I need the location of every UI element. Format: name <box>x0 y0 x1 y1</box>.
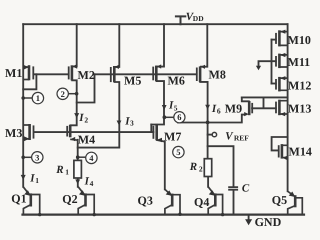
VREF terminal <box>212 132 216 136</box>
svg-text:M3: M3 <box>5 126 22 140</box>
transistor Q3 <box>165 189 180 214</box>
wire M8 drop <box>200 24 207 159</box>
transistor M10 <box>276 30 288 46</box>
svg-text:3: 3 <box>130 119 134 128</box>
transistor M6 <box>153 66 156 82</box>
node 5 <box>173 146 184 157</box>
transistor Q2 <box>78 187 94 215</box>
wire M14 gate tie <box>272 137 288 150</box>
svg-text:M8: M8 <box>209 68 226 82</box>
svg-text:M6: M6 <box>168 74 185 88</box>
svg-text:1: 1 <box>65 168 69 177</box>
svg-text:6: 6 <box>177 112 181 122</box>
ground rail <box>23 214 305 216</box>
wire M11 gate to ground arrow <box>259 61 276 66</box>
svg-text:Q2: Q2 <box>62 192 77 206</box>
wire M7 gate-drain tie <box>150 125 152 133</box>
wire gate bus M3-M4-M7 <box>35 131 153 133</box>
transistor Q5 <box>288 191 303 214</box>
wire R1 top <box>77 140 79 161</box>
transistor M8 <box>197 66 200 82</box>
wire C branch <box>208 146 234 214</box>
svg-text:M9: M9 <box>225 102 242 116</box>
svg-text:4: 4 <box>90 179 94 188</box>
svg-text:2: 2 <box>84 115 88 124</box>
svg-text:GND: GND <box>255 215 282 229</box>
current arrow I6 <box>205 105 210 110</box>
wire M2 drain drop <box>70 24 76 125</box>
svg-text:5: 5 <box>176 147 180 157</box>
junction dot Q3 base <box>178 213 181 216</box>
wire M9 drain to top bus <box>242 97 249 101</box>
svg-text:DD: DD <box>193 14 204 23</box>
wire M5 drain drop <box>78 24 120 147</box>
wire M9 gate to M13 gate <box>252 97 276 108</box>
junction dot I6 bus <box>206 121 210 125</box>
GND arrow stem <box>248 215 250 220</box>
svg-text:M12: M12 <box>288 78 311 92</box>
junction dot Q1 base <box>38 213 41 216</box>
svg-text:4: 4 <box>89 153 94 163</box>
transistor M1 <box>23 65 33 80</box>
svg-text:I: I <box>78 112 84 124</box>
wire M10 gate lead <box>272 39 276 41</box>
node 2 <box>57 88 78 99</box>
svg-text:5: 5 <box>174 103 178 112</box>
svg-text:3: 3 <box>35 152 39 162</box>
current arrow I3 <box>117 121 122 126</box>
svg-text:M1: M1 <box>5 66 22 80</box>
wire top bus M9-M13 <box>242 96 288 98</box>
transistor M14 <box>279 144 288 159</box>
wire top VDD rail <box>23 23 287 25</box>
svg-text:Q5: Q5 <box>272 193 287 207</box>
transistor M9 <box>249 101 252 115</box>
wire M12 gate lead <box>272 83 276 85</box>
svg-text:Q1: Q1 <box>11 191 26 205</box>
transistor Q4 <box>208 187 222 215</box>
transistor M7 <box>153 124 156 140</box>
wire M7 source to Q3 <box>157 140 165 189</box>
svg-text:2: 2 <box>61 89 65 99</box>
transistor M4 <box>67 125 78 140</box>
svg-text:M14: M14 <box>289 145 312 159</box>
wire node6 bus to M9 <box>178 115 244 123</box>
transistor M2 <box>69 65 72 80</box>
resistor R2 <box>204 159 211 177</box>
capacitor C plates <box>228 187 238 190</box>
svg-text:M11: M11 <box>288 55 311 69</box>
node 6 <box>163 112 185 123</box>
svg-text:R: R <box>189 161 197 173</box>
transistor Q1 <box>23 187 40 215</box>
svg-text:R: R <box>55 164 63 176</box>
current arrow I2 <box>74 113 79 118</box>
wire VREF lead <box>208 134 213 136</box>
svg-text:2: 2 <box>199 164 203 173</box>
ground arrow at M11 gate <box>256 66 261 71</box>
current arrow I4 <box>75 179 80 184</box>
wire left rail <box>22 24 24 187</box>
node 4 <box>76 152 97 163</box>
node 1 <box>21 92 43 103</box>
junction dot Q4 base <box>221 213 224 216</box>
GND arrowhead <box>245 219 252 225</box>
transistor M12 <box>276 77 288 92</box>
svg-text:M7: M7 <box>164 129 181 143</box>
VDD tap <box>176 16 185 24</box>
svg-text:M2: M2 <box>78 68 95 82</box>
wire R1 bottom to Q2 <box>77 178 79 187</box>
current arrow I1 <box>21 175 26 180</box>
wire M2 drain jog to gate bus <box>77 74 95 102</box>
transistor M5 <box>111 66 115 82</box>
wire gate bus M5-M6-M8 <box>95 73 197 75</box>
svg-text:C: C <box>242 182 250 194</box>
svg-text:M5: M5 <box>124 74 141 88</box>
wire gate bus M1-M2 <box>33 73 68 75</box>
wire R2 bottom to Q4 <box>207 177 209 187</box>
svg-text:6: 6 <box>217 107 221 116</box>
node 3 <box>21 152 43 163</box>
svg-text:1: 1 <box>36 93 40 103</box>
wire right rail <box>287 24 289 191</box>
svg-text:1: 1 <box>35 176 39 185</box>
svg-text:Q3: Q3 <box>138 194 153 208</box>
svg-text:M13: M13 <box>288 102 311 116</box>
wire M10-M12 gate column <box>271 40 273 84</box>
svg-text:Q4: Q4 <box>194 195 209 209</box>
svg-text:REF: REF <box>234 133 249 142</box>
transistor M3 <box>23 124 33 140</box>
svg-text:M4: M4 <box>78 132 95 146</box>
svg-text:M10: M10 <box>288 33 311 47</box>
wire M6 drop and node 6 column <box>151 24 164 124</box>
wire M1 gate tie to rail <box>23 74 36 89</box>
junction dot Q2 base <box>93 213 96 216</box>
current arrow I5 <box>162 105 167 110</box>
resistor R1 <box>74 160 82 178</box>
transistor M13 <box>276 100 288 116</box>
transistor M11 <box>276 54 288 69</box>
